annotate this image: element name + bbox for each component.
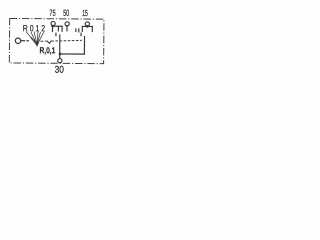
contact finger x75.8 (75, 28, 77, 32)
fan position line 1 (34, 31, 37, 44)
fan position line 6 (37, 32, 44, 45)
terminal 75 circle (51, 21, 55, 25)
terminal 50 circle (65, 22, 69, 26)
wiper travel dashed line (40, 40, 81, 44)
contact finger x81 (80, 33, 82, 37)
wire junction to right branch (60, 36, 85, 54)
svg-text:15: 15 (82, 8, 88, 18)
fan position line 5 (37, 32, 40, 45)
fan position line 2 (36, 32, 39, 45)
wire terminal 30 riser (59, 34, 61, 58)
contact finger x58 (57, 26, 59, 31)
terminal 30 circle (58, 59, 62, 63)
junction dot 15 (86, 25, 89, 28)
svg-text:30: 30 (55, 65, 65, 76)
wire from left terminal (21, 40, 25, 42)
svg-text:50: 50 (63, 8, 69, 18)
contact stub under 75 dot (51, 26, 53, 32)
contact bar under terminal 75 (53, 26, 63, 32)
wiper arrowhead (35, 42, 39, 46)
wiper contact V mark (47, 41, 51, 44)
wiper arrow shaft (31, 37, 37, 44)
svg-text:R,0,1: R,0,1 (39, 45, 55, 55)
free contact stub x56 (55, 33, 57, 36)
junction dot 75 (51, 25, 54, 28)
junction dot 30 (59, 53, 62, 56)
svg-text:75: 75 (49, 8, 56, 18)
left terminal circle (15, 38, 20, 43)
fan position line R (26, 32, 37, 45)
contact bridge under terminal 15 (82, 26, 92, 32)
fan position line 0 (31, 32, 37, 45)
junction dot 50 (66, 25, 68, 27)
switch housing dash-dot border (9, 18, 104, 63)
terminal 15 circle (85, 22, 89, 26)
contact finger x78.7 (78, 28, 80, 32)
contact under terminal 50 (66, 26, 68, 31)
